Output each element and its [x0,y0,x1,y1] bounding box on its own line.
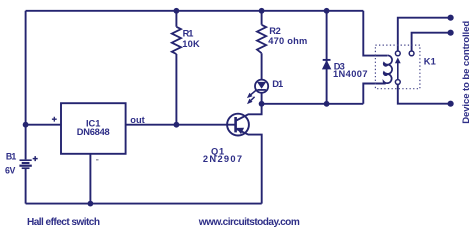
transistor Q1 [227,104,262,204]
svg-text:R2: R2 [269,26,281,36]
node IC ground [88,201,94,207]
svg-text:2N2907: 2N2907 [203,154,242,164]
relay contact circle 1 [395,51,400,56]
svg-text:470 ohm: 470 ohm [268,36,307,46]
svg-text:out: out [130,115,144,125]
node R1 top [174,8,180,14]
node D3 top [324,8,330,14]
wire IC out to base [126,124,236,126]
resistor R2 [257,25,266,53]
LED D1 [255,80,268,93]
svg-text:www.circuitstoday.com: www.circuitstoday.com [198,217,300,228]
wire R1 column [175,11,177,125]
battery B1 plates [19,160,31,168]
svg-text:R1: R1 [183,29,194,39]
wire coil bottom feed [363,84,385,104]
IC1 box [61,103,126,154]
svg-text:B1: B1 [6,152,16,162]
node battery plus branch [23,122,29,128]
wire D3 column [326,11,328,104]
wire top rail [26,10,364,12]
relay K1 dashed box [375,45,420,89]
wire node row to relay [262,103,364,105]
LED D1 emission arrows [248,90,257,104]
svg-text:K1: K1 [424,57,436,67]
wire R2 column [261,11,263,80]
wire bottom rail [26,203,262,205]
terminal dot 1 [448,15,454,21]
IC plus pin label [52,117,57,122]
relay arm arrowhead [395,58,401,64]
junction node dots [23,8,454,207]
wire IC ground pin [89,154,91,204]
svg-text:D1: D1 [272,79,283,89]
wire LED to node [261,93,263,104]
diode D3 [323,60,331,69]
wire coil top feed [363,11,387,56]
svg-text:6V: 6V [5,166,16,176]
node R1 out [174,122,180,128]
svg-text:Device to be controlled: Device to be controlled [461,21,472,124]
terminal dot 2 [448,30,454,36]
svg-text:Hall effect switch: Hall effect switch [27,217,100,228]
terminal dot 3 [448,101,454,107]
transistor Q1 emitter arrow [237,128,243,133]
wire relay contact1 to terminal [398,18,451,51]
IC minus pin label [96,159,99,161]
node D3 bottom [324,101,330,107]
wire left rail lower [25,169,27,204]
wire battery plus input [26,124,61,126]
battery plus sign [33,156,38,161]
svg-text:DN6848: DN6848 [77,127,110,137]
svg-text:1N4007: 1N4007 [333,69,368,79]
wire relay common to terminal [398,85,451,104]
node R2 top [259,8,265,14]
resistor R1 [172,27,181,54]
node LED cathode [259,101,265,107]
wire relay contact2 to terminal [412,33,451,51]
relay contact circle 2 [409,51,414,56]
relay K1 switch arm [397,63,399,80]
wire left rail upper [25,11,27,160]
relay K1 coil [384,55,392,83]
relay pivot circle [395,80,400,85]
svg-text:10K: 10K [182,39,200,49]
